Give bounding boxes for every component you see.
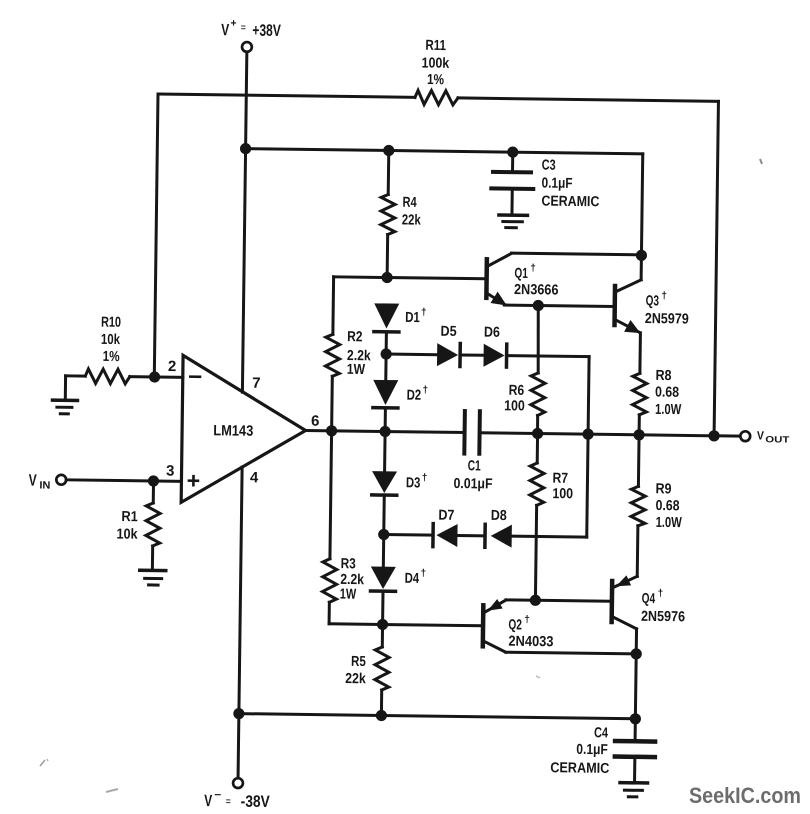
- label R6 value: [504, 383, 525, 415]
- op-amp minus input mark: [190, 375, 200, 378]
- svg-text:D4: D4: [405, 571, 420, 587]
- label D5: [441, 324, 457, 340]
- label VIN: [29, 472, 51, 492]
- resistor R7: [528, 433, 544, 600]
- wire Q2 emitter to Q4 base: [506, 600, 610, 601]
- capacitor C4: [615, 719, 656, 782]
- label Q4: [641, 588, 685, 625]
- svg-text:2: 2: [168, 358, 177, 375]
- wire R4 bottom lead: [386, 235, 390, 278]
- wire output rail right of C1: [480, 433, 715, 436]
- svg-text:R4: R4: [402, 195, 416, 211]
- svg-text:LM143: LM143: [213, 422, 253, 440]
- svg-text:0.1μF: 0.1μF: [541, 176, 572, 192]
- svg-text:†: †: [420, 568, 426, 579]
- node rail R6 junction: [532, 428, 543, 439]
- label Q1: [514, 263, 559, 299]
- node D1 D2 junction: [380, 348, 391, 359]
- svg-text:−: −: [214, 789, 221, 801]
- label D6: [484, 325, 500, 341]
- svg-text:SeekIC.com: SeekIC.com: [689, 783, 801, 808]
- diode D4: [370, 534, 396, 624]
- svg-text:D1: D1: [405, 310, 420, 326]
- svg-text:1%: 1%: [427, 72, 444, 88]
- label C1 value: [453, 458, 493, 492]
- wire V+ distribution rail: [246, 149, 643, 154]
- wire collectors to bottom rail: [634, 654, 638, 719]
- svg-text:1.0W: 1.0W: [655, 402, 682, 418]
- svg-text:Q2: Q2: [508, 617, 522, 633]
- svg-text:†: †: [530, 263, 536, 274]
- ground R1: [140, 546, 167, 585]
- terminal VOUT: [740, 431, 750, 441]
- node R7 bottom junction: [530, 595, 541, 606]
- wire collector drop from V+ rail: [641, 154, 642, 255]
- svg-text:4: 4: [250, 469, 259, 486]
- svg-text:†: †: [421, 307, 427, 318]
- svg-text:D3: D3: [406, 475, 421, 491]
- svg-text:2N3666: 2N3666: [514, 282, 559, 299]
- op-amp U1 LM143: [181, 355, 306, 504]
- label Q3: [645, 290, 689, 327]
- svg-text:D6: D6: [484, 325, 500, 341]
- label D7: [438, 508, 454, 524]
- svg-text:CERAMIC: CERAMIC: [550, 760, 610, 777]
- node V+ rail junction: [240, 143, 251, 154]
- svg-text:IN: IN: [39, 479, 50, 491]
- svg-text:1W: 1W: [340, 587, 357, 603]
- wire pin 4 to V-: [238, 467, 242, 778]
- svg-text:R10: R10: [101, 315, 121, 331]
- svg-text:V: V: [757, 428, 764, 442]
- svg-text:D5: D5: [441, 324, 457, 340]
- label R3 value: [340, 556, 365, 603]
- wire bias top to R2 corner: [334, 275, 387, 279]
- label D1: [405, 307, 427, 326]
- svg-text:D7: D7: [438, 508, 454, 524]
- node pin2 junction: [149, 371, 160, 382]
- svg-text:Q3: Q3: [646, 293, 660, 309]
- svg-text:R3: R3: [341, 556, 356, 572]
- label R2 value: [347, 329, 372, 378]
- svg-text:2N5976: 2N5976: [641, 609, 685, 626]
- svg-text:22k: 22k: [402, 212, 422, 228]
- diode D6: [483, 344, 506, 367]
- capacitor C1: [464, 411, 480, 454]
- node pin3 junction: [148, 475, 159, 486]
- svg-text:-38V: -38V: [241, 793, 270, 811]
- diode D8: [485, 524, 512, 547]
- label R10 value: [100, 315, 121, 366]
- wire Q1 collector: [511, 253, 641, 255]
- wire D5 to D6: [460, 353, 483, 356]
- svg-text:†: †: [524, 614, 530, 625]
- node R5 bottom junction: [376, 710, 387, 721]
- resistor R10: [66, 369, 183, 385]
- svg-text:10k: 10k: [101, 332, 121, 348]
- svg-text:C4: C4: [594, 725, 608, 741]
- svg-text:R2: R2: [347, 329, 363, 345]
- label C3 value: [541, 158, 600, 211]
- svg-text:1W: 1W: [347, 362, 366, 378]
- node R4 top junction: [383, 145, 394, 156]
- node R5 top junction: [377, 619, 388, 630]
- diode D5: [437, 343, 460, 366]
- svg-text:+: +: [230, 17, 236, 29]
- node D3 D4 junction: [378, 529, 389, 540]
- resistor R11: [415, 90, 458, 105]
- label D2: [407, 385, 429, 404]
- svg-text:+38V: +38V: [252, 22, 281, 40]
- svg-text:R8: R8: [655, 368, 671, 384]
- resistor R2: [325, 277, 341, 431]
- diode D2: [373, 354, 399, 432]
- svg-text:C1: C1: [468, 458, 481, 474]
- svg-text:100k: 100k: [422, 55, 451, 71]
- terminal V-: [233, 778, 243, 788]
- node Q1 emitter junction: [533, 300, 544, 311]
- label LM143: [213, 422, 253, 440]
- wire Q1 base lead: [387, 278, 484, 279]
- capacitor C3: [491, 152, 534, 214]
- svg-text:R7: R7: [552, 471, 568, 487]
- svg-text:CERAMIC: CERAMIC: [541, 194, 600, 211]
- svg-text:†: †: [658, 588, 664, 599]
- node rail R8R9 junction: [633, 429, 644, 440]
- node C4 junction: [630, 713, 641, 724]
- label R9 value: [655, 481, 683, 531]
- terminal V+: [242, 42, 252, 52]
- svg-text:Q4: Q4: [642, 591, 656, 607]
- ground C4: [620, 783, 648, 797]
- terminal VIN: [56, 475, 66, 485]
- label R8 value: [655, 368, 682, 418]
- wire D5 feed: [386, 353, 437, 357]
- svg-text:V: V: [204, 792, 212, 810]
- svg-text:100: 100: [552, 486, 573, 502]
- node collectors bottom junction: [631, 648, 642, 659]
- node rail feedback junction: [708, 430, 719, 441]
- transistor Q2: [483, 599, 507, 652]
- node rail diode chain junction: [379, 426, 390, 437]
- label D3: [406, 472, 428, 491]
- label R1 value: [116, 509, 138, 543]
- label C4 value: [550, 725, 610, 777]
- scan speck: [40, 159, 762, 792]
- svg-text:=: =: [226, 796, 231, 807]
- wire bottom V- rail: [239, 714, 635, 719]
- label R11 value: [421, 38, 450, 89]
- transistor Q4: [611, 575, 637, 654]
- svg-text:1%: 1%: [103, 349, 120, 365]
- resistor R1: [146, 503, 161, 546]
- transistor Q3: [614, 255, 642, 373]
- label pin 7: [252, 375, 261, 392]
- svg-text:V: V: [221, 21, 229, 39]
- resistor R8: [632, 373, 647, 435]
- svg-text:R1: R1: [121, 509, 138, 525]
- wire D8 to clamp column: [512, 535, 587, 539]
- svg-text:V: V: [29, 472, 37, 490]
- resistor R3: [322, 431, 339, 624]
- svg-text:†: †: [422, 472, 428, 483]
- svg-text:1.0W: 1.0W: [656, 515, 683, 531]
- resistor R5: [374, 624, 389, 715]
- svg-text:22k: 22k: [345, 671, 367, 687]
- ground C3: [499, 215, 528, 228]
- svg-text:Q1: Q1: [514, 266, 528, 282]
- svg-text:R11: R11: [425, 38, 446, 54]
- svg-text:R5: R5: [351, 654, 366, 670]
- svg-text:2N4033: 2N4033: [508, 634, 553, 651]
- svg-text:OUT: OUT: [765, 434, 790, 444]
- svg-text:†: †: [661, 291, 667, 302]
- label D4: [405, 568, 427, 587]
- resistor R4: [381, 194, 396, 234]
- svg-text:D2: D2: [407, 388, 422, 404]
- node C3 junction: [507, 146, 518, 157]
- svg-text:=: =: [241, 23, 246, 34]
- wire output rail left of C1: [306, 430, 465, 432]
- svg-text:100: 100: [504, 398, 525, 414]
- wire Q1 emitter to Q3 base: [504, 305, 612, 306]
- wire left feedback column: [154, 94, 158, 377]
- svg-text:3: 3: [166, 463, 175, 480]
- wire V+ stem / pin 7: [242, 52, 246, 392]
- svg-text:R6: R6: [509, 383, 525, 399]
- node bottom rail pin4 junction: [233, 708, 244, 719]
- svg-text:2N5979: 2N5979: [645, 311, 689, 328]
- op-amp plus input mark: [189, 476, 198, 485]
- node rail clamp junction: [582, 428, 593, 439]
- svg-text:0.1μF: 0.1μF: [576, 742, 608, 758]
- label D8: [491, 508, 507, 524]
- svg-text:0.01μF: 0.01μF: [453, 476, 492, 493]
- wire clamp column: [587, 357, 589, 537]
- label VOUT: [757, 428, 790, 444]
- node bias top junction: [381, 272, 392, 283]
- wire R1 top lead: [152, 481, 155, 503]
- svg-text:6: 6: [311, 413, 320, 430]
- svg-text:R9: R9: [655, 481, 671, 497]
- wire R4 top lead: [387, 151, 391, 195]
- label R4 value: [402, 195, 422, 229]
- resistor R6: [530, 305, 546, 433]
- wire D7 to D8: [457, 534, 485, 537]
- wire right feedback column: [714, 101, 718, 435]
- wire VIN to pin 3: [66, 480, 181, 482]
- wire Q2 collector: [506, 652, 636, 654]
- wire top feedback rail right segment: [458, 98, 718, 101]
- svg-text:0.68: 0.68: [655, 385, 679, 401]
- diode D1: [374, 303, 400, 354]
- label pin 2: [168, 358, 177, 375]
- label V+ = +38V: [221, 17, 281, 40]
- diode D3: [371, 431, 397, 534]
- svg-text:0.68: 0.68: [655, 498, 679, 514]
- node collectors junction: [636, 250, 647, 261]
- label V- = -38V: [204, 789, 270, 811]
- label R5 value: [345, 654, 367, 687]
- svg-text:10k: 10k: [116, 526, 138, 542]
- svg-text:C3: C3: [542, 158, 556, 174]
- label pin 3: [166, 463, 175, 480]
- label R7 value: [552, 471, 573, 503]
- label pin 4: [250, 469, 259, 486]
- resistor R9: [630, 435, 646, 577]
- wire D6 to clamp column: [507, 356, 589, 357]
- svg-text:7: 7: [252, 375, 261, 392]
- ground R10: [52, 376, 77, 414]
- label pin 6: [311, 413, 320, 430]
- wire top feedback rail left segment: [158, 94, 415, 97]
- diode D7: [433, 524, 458, 547]
- wire D7 feed: [384, 533, 433, 537]
- label Q2: [508, 614, 554, 650]
- transistor Q1: [486, 253, 511, 305]
- svg-text:D8: D8: [491, 508, 507, 524]
- svg-text:†: †: [422, 385, 428, 396]
- node rail R2R3 junction: [326, 425, 337, 436]
- wire to VOUT terminal: [714, 434, 740, 437]
- wire bias bottom rail: [329, 624, 481, 626]
